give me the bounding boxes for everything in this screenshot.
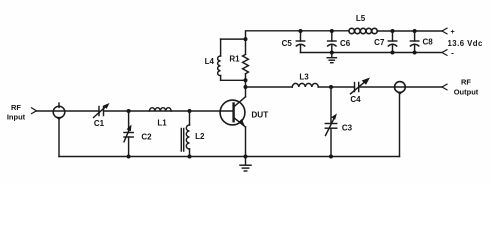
- wire: decoupling ground rail: [301, 52, 443, 54]
- junction: C6 on supply rail: [330, 29, 334, 33]
- wire: collector to L3: [246, 86, 293, 88]
- ground (below C6): [327, 53, 336, 63]
- inductor L1 (series): [150, 108, 172, 111]
- inductor L5 (supply choke): [349, 28, 378, 33]
- wire: L4 branch left bottom lead: [220, 76, 222, 81]
- inductor L3 (series output): [292, 83, 318, 87]
- junction: C6 on decoupling rail: [330, 51, 334, 55]
- svg-text:L1: L1: [157, 119, 167, 128]
- svg-text:Output: Output: [454, 88, 479, 97]
- svg-text:Input: Input: [7, 113, 26, 122]
- wire: node to C3 top: [330, 87, 332, 124]
- junction: emitter on ground rail: [244, 155, 248, 159]
- svg-text:13.6 Vdc: 13.6 Vdc: [448, 39, 483, 48]
- junction: output branch on collector column: [244, 85, 248, 89]
- node: RF Input terminal arrow: [32, 108, 37, 114]
- ground (below emitter): [240, 157, 251, 172]
- wire: L4 branch bottom: [221, 79, 246, 81]
- capacitor C1 (variable, series): [94, 103, 110, 118]
- capacitor C6 (bypass): [328, 31, 336, 53]
- junction: L4/R1 top tee: [244, 37, 248, 41]
- junction: C8 on supply rail: [413, 29, 417, 33]
- svg-text:L5: L5: [356, 14, 366, 23]
- capacitor C7 (bypass): [388, 31, 396, 53]
- junction: C2 on ground rail: [127, 155, 131, 159]
- wire: C4 to output connector and RF Output terminal: [359, 86, 442, 88]
- svg-text:C5: C5: [282, 39, 293, 48]
- wire: input connector shield to ground rail: [58, 118, 60, 157]
- connector J1 (RF input coax jack): [53, 103, 65, 120]
- wire: collector column: [246, 31, 350, 97]
- svg-text:-: -: [451, 49, 454, 58]
- wire: node to L2 top: [189, 111, 191, 125]
- svg-text:C6: C6: [340, 39, 351, 48]
- node: RF Output terminal arrow: [442, 84, 447, 90]
- svg-text:C3: C3: [342, 124, 353, 133]
- junction: C3 on ground rail: [329, 155, 333, 159]
- junction: C5 on supply rail: [299, 29, 303, 33]
- svg-text:RF: RF: [11, 103, 21, 112]
- svg-text:DUT: DUT: [251, 110, 268, 119]
- svg-text:C2: C2: [141, 133, 152, 142]
- wire: L2 bottom to ground rail: [189, 149, 191, 157]
- connector J2 (RF output coax jack): [395, 82, 406, 95]
- svg-text:RF: RF: [461, 78, 471, 87]
- svg-text:L2: L2: [195, 132, 205, 141]
- junction: L4/R1 bottom tee: [244, 78, 248, 82]
- capacitor C5 (bypass): [296, 31, 304, 53]
- capacitor C3 (variable, shunt): [325, 114, 337, 136]
- junction: C2 tap on input line: [127, 109, 131, 113]
- wire: L3 to C4: [318, 86, 354, 88]
- junction: C8 on decoupling rail: [413, 51, 417, 55]
- junction: L2 tap on input line: [188, 109, 192, 113]
- svg-text:C8: C8: [423, 38, 434, 47]
- svg-text:L4: L4: [205, 57, 215, 66]
- wire: L4 branch top: [221, 38, 246, 40]
- wire: C3 bottom to ground rail: [330, 128, 332, 156]
- capacitor C2 (variable, shunt): [124, 125, 133, 142]
- svg-text:C4: C4: [350, 95, 361, 104]
- node: supply return terminal arrow: [442, 50, 447, 56]
- junction: L2 on ground rail: [188, 155, 192, 159]
- wire: supply rail L5 to + terminal: [377, 30, 442, 32]
- wire: node to C2 top: [128, 111, 130, 133]
- svg-text:R1: R1: [229, 55, 240, 64]
- node: +13.6V terminal arrow: [442, 28, 447, 34]
- svg-text:C1: C1: [94, 119, 105, 128]
- capacitor C8 (bypass): [410, 31, 418, 53]
- svg-text:+: +: [450, 29, 454, 36]
- wire: C1 to base node: [104, 110, 234, 112]
- inductor L4: [218, 56, 221, 76]
- resistor R1: [243, 54, 249, 73]
- svg-text:L3: L3: [299, 73, 309, 82]
- wire: RF input lead to connector: [37, 110, 100, 112]
- capacitor C4 (variable, series): [351, 78, 371, 94]
- ground rail (bottom): [59, 156, 400, 158]
- wire: L4 branch left top lead: [220, 39, 222, 56]
- wire: emitter to ground rail: [245, 127, 247, 157]
- wire: C2 bottom to ground rail: [128, 137, 130, 157]
- junction: C7 on decoupling rail: [391, 51, 395, 55]
- wire: output connector shield down: [399, 93, 401, 157]
- transistor Q1 (DUT): [220, 97, 245, 127]
- svg-text:C7: C7: [374, 38, 385, 47]
- inductor L2 (shunt, with core): [181, 125, 189, 151]
- junction: C7 on supply rail: [391, 29, 395, 33]
- junction: C3 tap on output line: [329, 85, 333, 89]
